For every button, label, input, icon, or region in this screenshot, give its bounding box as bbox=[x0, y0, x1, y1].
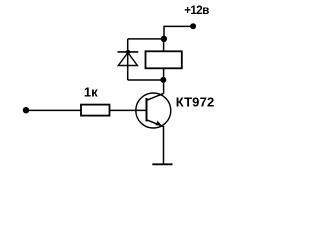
svg-text:+12в: +12в bbox=[184, 5, 209, 17]
svg-text:1к: 1к bbox=[84, 85, 98, 100]
svg-text:КТ972: КТ972 bbox=[176, 94, 215, 109]
